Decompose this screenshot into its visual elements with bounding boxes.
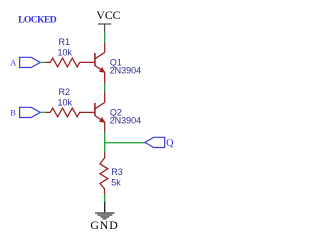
port Q: [145, 137, 165, 147]
svg-text:GND: GND: [90, 218, 118, 232]
transistor Q2: [87, 92, 105, 132]
svg-text:R1: R1: [59, 37, 71, 47]
ground: [95, 202, 114, 219]
svg-text:10k: 10k: [58, 98, 73, 108]
wire Q2 emitter down to R3: [104, 131, 106, 152]
svg-text:10k: 10k: [58, 48, 73, 58]
svg-text:5k: 5k: [111, 177, 121, 187]
port A: [20, 57, 41, 67]
svg-text:R3: R3: [111, 167, 123, 177]
port B: [20, 107, 41, 117]
wire Q1 emitter to Q2 collector: [104, 83, 106, 92]
wire junction to port Q: [105, 142, 146, 144]
wire port B to R2: [40, 111, 45, 113]
VCC power symbol: [98, 24, 111, 33]
svg-text:2N3904: 2N3904: [110, 65, 142, 75]
wire R3 to ground: [104, 194, 106, 202]
svg-text:Q: Q: [166, 138, 174, 149]
resistor R1: [45, 58, 87, 67]
resistor R3: [100, 152, 108, 194]
svg-text:LOCKED: LOCKED: [18, 15, 57, 26]
svg-text:VCC: VCC: [96, 9, 120, 22]
svg-text:A: A: [10, 58, 17, 68]
resistor R2: [45, 108, 87, 117]
svg-text:B: B: [10, 108, 16, 118]
wire port A to R1: [40, 61, 45, 63]
svg-text:2N3904: 2N3904: [110, 115, 142, 125]
svg-text:R2: R2: [59, 87, 71, 97]
wire VCC to Q1 collector: [104, 33, 106, 43]
transistor Q1: [87, 43, 105, 83]
